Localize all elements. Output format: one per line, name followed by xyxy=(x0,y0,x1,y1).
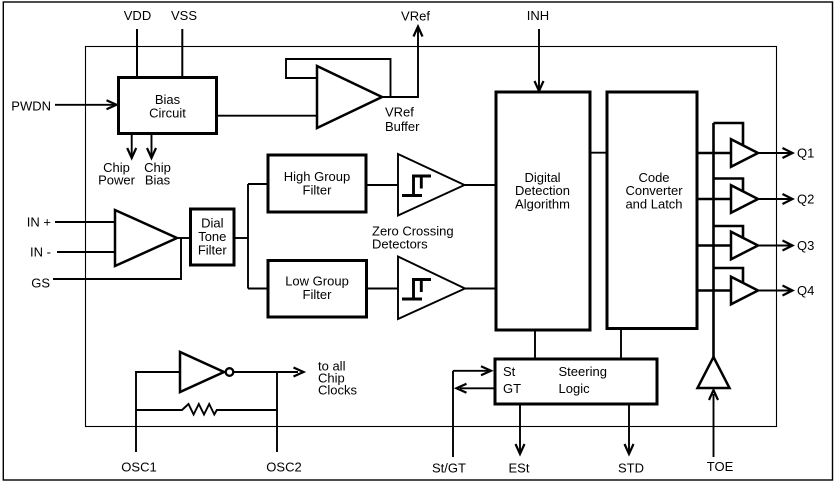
code converter and latch box xyxy=(607,92,697,329)
wire IN+ xyxy=(55,221,115,223)
wire TOE enable bus xyxy=(712,123,715,357)
wire enable branch Q2 xyxy=(714,179,744,195)
wire GT output arrow xyxy=(457,384,496,393)
wire GS xyxy=(53,238,181,279)
op-amp input amplifier xyxy=(115,210,177,266)
svg-text:Q3: Q3 xyxy=(797,238,814,253)
svg-text:VRef: VRef xyxy=(401,9,430,24)
op-amp VRef buffer xyxy=(317,66,382,128)
wire code-to-q4 xyxy=(697,289,731,291)
buffer Q2 xyxy=(731,185,758,213)
wire zcd2-to-dda xyxy=(465,288,496,290)
wire ESt arrow xyxy=(516,404,525,454)
svg-text:Algorithm: Algorithm xyxy=(515,197,570,212)
wire dialtone-branch xyxy=(234,184,268,289)
svg-text:VRef: VRef xyxy=(385,105,414,120)
wire osc output arrow to clocks xyxy=(277,368,304,377)
svg-text:Bias: Bias xyxy=(145,172,171,187)
wire q3 output arrow xyxy=(758,241,793,251)
wire enable branch Q4 xyxy=(714,268,744,285)
svg-text:STD: STD xyxy=(618,461,644,476)
wire IN- xyxy=(57,251,115,253)
wire amp-to-dialtone xyxy=(177,237,191,239)
chip boundary xyxy=(86,47,777,427)
svg-text:Detectors: Detectors xyxy=(372,237,428,252)
wire osc input / OSC1 leg xyxy=(136,372,180,452)
wire q4 output arrow xyxy=(758,286,793,296)
svg-text:PWDN: PWDN xyxy=(11,99,51,114)
wire zcd1-to-dda xyxy=(465,184,497,186)
wire code-to-q3 xyxy=(697,244,731,246)
svg-text:Q4: Q4 xyxy=(797,283,814,298)
svg-text:Buffer: Buffer xyxy=(385,119,420,134)
wire bias-to-vrefbuffer xyxy=(217,115,318,117)
wire St/GT vertical xyxy=(452,371,454,457)
hysteresis symbol zcd1 xyxy=(402,176,431,197)
svg-text:Circuit: Circuit xyxy=(149,106,186,121)
wire TOE input arrow xyxy=(709,390,718,457)
wire STD arrow xyxy=(625,404,634,454)
zero crossing detector 2 xyxy=(398,257,465,320)
svg-text:and Latch: and Latch xyxy=(625,197,682,212)
wire osc output / OSC2 leg xyxy=(234,372,278,452)
inverter oscillator xyxy=(180,352,224,392)
svg-text:Bias: Bias xyxy=(155,92,181,107)
buffer TOE (tri-state enable) xyxy=(698,357,730,388)
dial tone filter box xyxy=(191,209,235,265)
buffer Q3 xyxy=(731,232,758,260)
svg-text:IN -: IN - xyxy=(30,245,51,260)
wire enable branch Q3 xyxy=(714,226,744,240)
wire vref output with arrow xyxy=(382,27,423,98)
svg-text:Logic: Logic xyxy=(559,381,591,396)
svg-text:Power: Power xyxy=(98,172,136,187)
zero crossing detector 1 xyxy=(398,154,465,216)
svg-text:TOE: TOE xyxy=(707,459,734,474)
svg-text:Filter: Filter xyxy=(303,183,333,198)
wire hgf-to-zcd1 xyxy=(366,184,398,186)
wire VDD xyxy=(136,29,138,78)
bias circuit box xyxy=(119,78,217,134)
low group filter box xyxy=(268,261,367,318)
high group filter box xyxy=(268,155,366,212)
svg-text:INH: INH xyxy=(527,8,549,23)
wire code-to-steering xyxy=(620,329,622,360)
svg-text:St/GT: St/GT xyxy=(432,461,466,476)
wire code-to-q2 xyxy=(697,198,731,200)
svg-text:St: St xyxy=(503,364,516,379)
wire PWDN with arrow xyxy=(55,100,117,109)
svg-text:Q2: Q2 xyxy=(797,192,814,207)
buffer Q4 xyxy=(731,277,758,305)
digital detection algorithm box U-DDA xyxy=(496,92,590,330)
svg-text:VSS: VSS xyxy=(171,8,197,23)
wire enable branch Q1 xyxy=(714,123,744,148)
wire dda-to-code xyxy=(590,152,607,154)
svg-text:Clocks: Clocks xyxy=(318,383,358,398)
steering logic box xyxy=(495,359,657,404)
wire chip-bias arrow xyxy=(147,134,156,159)
svg-text:Steering: Steering xyxy=(559,364,607,379)
svg-text:Filter: Filter xyxy=(198,243,228,258)
wire vref feedback loop xyxy=(286,59,391,97)
svg-text:IN +: IN + xyxy=(27,215,51,230)
svg-text:VDD: VDD xyxy=(124,8,151,23)
svg-text:OSC1: OSC1 xyxy=(121,460,156,475)
wire code-to-q1 xyxy=(697,152,731,154)
buffer Q1 xyxy=(731,139,758,167)
svg-text:GT: GT xyxy=(503,381,521,396)
wire dda-to-steering xyxy=(534,330,536,359)
resistor R feedback xyxy=(136,404,277,415)
wire lgf-to-zcd2 xyxy=(367,288,399,290)
inverter bubble xyxy=(226,368,234,376)
hysteresis symbol zcd2 xyxy=(402,280,431,301)
svg-text:ESt: ESt xyxy=(509,461,530,476)
svg-text:GS: GS xyxy=(31,276,50,291)
wire St input arrow xyxy=(453,366,491,375)
wire q2 output arrow xyxy=(758,194,793,204)
wire VSS xyxy=(181,29,183,78)
svg-text:Q1: Q1 xyxy=(797,146,814,161)
wire q1 output arrow xyxy=(758,148,793,158)
svg-text:Filter: Filter xyxy=(303,287,333,302)
wire chip-power arrow xyxy=(127,134,136,159)
wire INH with arrow xyxy=(535,29,544,91)
svg-text:OSC2: OSC2 xyxy=(266,460,301,475)
